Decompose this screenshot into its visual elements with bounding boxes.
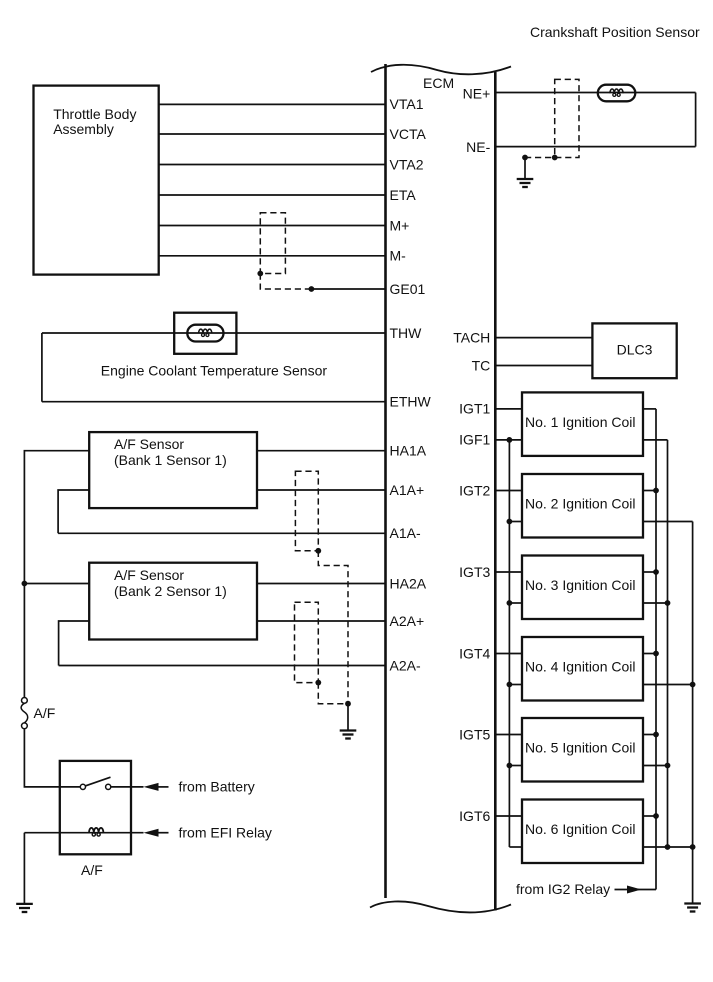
ground NE shield — [517, 179, 534, 187]
svg-text:A/F Sensor: A/F Sensor — [114, 436, 184, 452]
svg-text:IGT4: IGT4 — [459, 645, 490, 661]
wire HA1A right — [257, 450, 386, 452]
svg-text:A1A+: A1A+ — [390, 482, 425, 498]
svg-text:No. 5 Ignition Coil: No. 5 Ignition Coil — [525, 740, 636, 756]
No.2 Ignition Coil box — [522, 474, 643, 538]
fuse A/F — [22, 698, 28, 704]
svg-text:(Bank 1 Sensor 1): (Bank 1 Sensor 1) — [114, 452, 227, 468]
node bus IG2 coil4 — [653, 651, 659, 657]
wire coil1 right top — [643, 408, 656, 410]
node busA coil6 — [665, 844, 671, 850]
node shield drain corner — [257, 271, 263, 277]
DLC3 box — [592, 323, 676, 378]
No.4 Ignition Coil box — [522, 637, 643, 701]
arrow IG2 — [627, 886, 642, 894]
svg-text:A2A-: A2A- — [390, 657, 421, 673]
wire ECT loop left — [41, 333, 43, 402]
wire A2A+ right — [257, 620, 386, 622]
wire M+ — [159, 225, 386, 227]
svg-text:NE-: NE- — [466, 139, 490, 155]
wire ETHW — [42, 401, 386, 403]
wire coil1 right lower — [643, 439, 668, 441]
wire IGT1 — [495, 408, 522, 410]
svg-text:IGT1: IGT1 — [459, 401, 490, 417]
svg-text:from EFI Relay: from EFI Relay — [179, 825, 272, 841]
svg-text:THW: THW — [390, 325, 423, 341]
svg-text:A/F Sensor: A/F Sensor — [114, 567, 184, 583]
svg-text:M-: M- — [390, 248, 407, 264]
wire from IG2 relay — [615, 889, 657, 891]
svg-text:DLC3: DLC3 — [617, 342, 653, 358]
svg-text:IGT6: IGT6 — [459, 808, 490, 824]
wire IGT6 — [495, 815, 522, 817]
ECM right edge — [494, 72, 497, 911]
wire coil4 right lower — [643, 684, 693, 686]
node shield drain junction — [345, 701, 351, 707]
No.1 Ignition Coil box — [522, 392, 643, 456]
svg-text:TACH: TACH — [453, 329, 490, 345]
node busB coil6 — [690, 844, 696, 850]
No.6 Ignition Coil box — [522, 800, 643, 864]
wire A1A- — [58, 532, 385, 534]
wire HA2A left — [24, 583, 89, 585]
svg-text:A2A+: A2A+ — [390, 613, 425, 629]
svg-text:IGT3: IGT3 — [459, 564, 490, 580]
wire IGT2 — [495, 490, 522, 492]
wire A2A+ left loop — [59, 621, 90, 666]
No.3 Ignition Coil box — [522, 556, 643, 620]
svg-text:ETA: ETA — [390, 187, 417, 203]
svg-text:A1A-: A1A- — [390, 525, 421, 541]
wire coil to ground — [23, 833, 25, 904]
node shield2 dot — [315, 680, 321, 686]
node HA2A bus junction — [22, 581, 28, 587]
svg-text:No. 1 Ignition Coil: No. 1 Ignition Coil — [525, 414, 636, 430]
wire coil5 IGF stub — [509, 765, 522, 767]
svg-text:VCTA: VCTA — [390, 126, 427, 142]
No.5 Ignition Coil box — [522, 718, 643, 782]
ground bottom left — [16, 904, 33, 912]
wire M- — [159, 255, 386, 257]
svg-text:No. 2 Ignition Coil: No. 2 Ignition Coil — [525, 496, 636, 512]
wire coil6 right top — [643, 815, 656, 817]
Throttle Body Assembly box — [34, 86, 159, 275]
wire coil3 right lower — [643, 602, 668, 604]
wire A1A+ right — [257, 489, 386, 491]
wire HA1A left to bus — [24, 451, 89, 701]
svg-text:VTA1: VTA1 — [390, 96, 424, 112]
wire TACH — [495, 337, 592, 339]
node bus IG2 coil3 — [653, 569, 659, 575]
svg-text:NE+: NE+ — [463, 85, 491, 101]
svg-text:TC: TC — [472, 357, 491, 373]
wire TC — [495, 365, 592, 367]
wire A2A- — [59, 665, 386, 667]
svg-text:A/F: A/F — [81, 862, 103, 878]
relay coil wire — [24, 832, 143, 834]
node busA coil5 — [665, 763, 671, 769]
pickup coil crankshaft sensor — [598, 85, 636, 102]
wire fuse to relay switch — [24, 729, 59, 787]
wire IGF1 — [495, 439, 522, 441]
wire IGT5 — [495, 734, 522, 736]
wire coil3 right top — [643, 571, 656, 573]
wire switch right — [111, 786, 144, 788]
svg-text:IGF1: IGF1 — [459, 432, 490, 448]
wire VTA2 — [159, 164, 386, 166]
wire IGT3 — [495, 571, 522, 573]
ECM bottom torn edge — [370, 901, 511, 912]
svg-text:ECM: ECM — [423, 75, 454, 91]
wire NE drain to ground — [524, 158, 526, 180]
node coil4 IGF — [507, 682, 513, 688]
wire shield drain to ground — [347, 704, 349, 731]
thermistor element ECT — [187, 325, 223, 342]
svg-text:No. 6 Ignition Coil: No. 6 Ignition Coil — [525, 821, 636, 837]
svg-text:from IG2 Relay: from IG2 Relay — [516, 881, 610, 897]
svg-text:A/F: A/F — [34, 705, 56, 721]
wire VCTA — [159, 133, 386, 135]
Engine Coolant Temperature Sensor box — [174, 313, 236, 354]
svg-text:No. 4 Ignition Coil: No. 4 Ignition Coil — [525, 659, 636, 675]
svg-text:Crankshaft Position Sensor: Crankshaft Position Sensor — [530, 24, 700, 40]
node coil2 IGF — [507, 519, 513, 525]
wire coil2 right lower — [643, 521, 693, 523]
wire VTA1 — [159, 103, 386, 105]
arrow from Battery — [144, 783, 159, 791]
wire coil3 IGF stub — [509, 602, 522, 604]
switch contacts — [80, 784, 85, 789]
relay coil element — [89, 828, 103, 833]
node bus IG2 coil6 — [653, 813, 659, 819]
node IGF1 junction — [507, 437, 513, 443]
wire IGT4 — [495, 653, 522, 655]
wire GE01 — [311, 288, 385, 290]
svg-text:GE01: GE01 — [390, 281, 426, 297]
wire ground bus A — [667, 440, 669, 847]
shield around NE wires (dashed) — [525, 79, 579, 157]
A/F Sensor Bank2 box — [89, 563, 257, 640]
wire NE- — [495, 146, 695, 148]
node NE shield dot — [552, 155, 558, 161]
wire coil4 right top — [643, 653, 656, 655]
ground shield drain — [340, 731, 357, 739]
ECM top torn edge — [371, 65, 511, 75]
node coil3 IGF — [507, 600, 513, 606]
wire coil6 right lower — [643, 846, 693, 848]
svg-text:M+: M+ — [390, 217, 410, 233]
A/F Sensor Bank1 box — [89, 432, 257, 508]
wire NE right loop — [695, 93, 697, 147]
wire coil2 right top — [643, 490, 656, 492]
wire IG2 bus — [655, 409, 657, 890]
node NE drain dot — [522, 155, 528, 161]
svg-text:from Battery: from Battery — [179, 779, 255, 795]
shield around M+ M- (dashed) — [260, 213, 311, 289]
svg-text:Assembly: Assembly — [53, 121, 114, 137]
wire coil5 right top — [643, 734, 656, 736]
wire IGF bus — [508, 440, 510, 847]
wire coil2 IGF stub — [509, 521, 522, 523]
ground bottom right — [684, 904, 701, 912]
wire coil5 right lower — [643, 765, 668, 767]
wire coil4 IGF stub — [509, 684, 522, 686]
ECM left edge — [384, 64, 387, 898]
node GE01 junction — [309, 286, 315, 292]
node coil5 IGF — [507, 763, 513, 769]
wire coil6 IGF stub — [509, 846, 522, 848]
wire A1A+ left loop — [58, 490, 89, 533]
svg-text:ETHW: ETHW — [390, 394, 432, 410]
svg-text:IGT5: IGT5 — [459, 726, 490, 742]
node bus IG2 coil5 — [653, 732, 659, 738]
svg-text:Engine Coolant Temperature Sen: Engine Coolant Temperature Sensor — [101, 363, 328, 379]
arrow from EFI Relay — [144, 829, 159, 837]
wire NE+ — [495, 92, 695, 94]
svg-text:No. 3 Ignition Coil: No. 3 Ignition Coil — [525, 577, 636, 593]
svg-text:(Bank 2 Sensor 1): (Bank 2 Sensor 1) — [114, 583, 227, 599]
node busA coil3 — [665, 600, 671, 606]
node busB coil4 — [690, 682, 696, 688]
wire ETA — [159, 194, 386, 196]
svg-text:IGT2: IGT2 — [459, 482, 490, 498]
shield around A2A+ A2A- (dashed) — [295, 602, 349, 704]
svg-text:VTA2: VTA2 — [390, 156, 424, 172]
wire THW — [42, 332, 386, 334]
svg-text:HA1A: HA1A — [390, 443, 427, 459]
switch blade — [85, 777, 110, 786]
node bus IG2 coil2 — [653, 488, 659, 494]
shield around A1A+ A1A- (dashed) — [295, 471, 348, 703]
node shield1 dot — [315, 548, 321, 554]
svg-text:Throttle Body: Throttle Body — [53, 106, 136, 122]
relay box A/F — [60, 761, 131, 854]
wire HA2A right — [257, 583, 386, 585]
wire ground bus B — [692, 522, 694, 904]
wire switch left inside — [60, 786, 81, 788]
svg-text:HA2A: HA2A — [390, 575, 427, 591]
